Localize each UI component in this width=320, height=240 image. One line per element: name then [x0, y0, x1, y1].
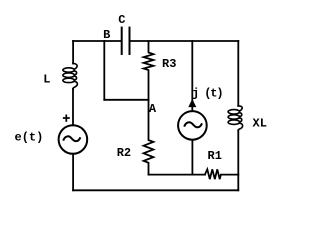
wire left lower [72, 154, 74, 191]
resistor R2 with leads (node A down) [144, 100, 154, 175]
inductor L entry hook [73, 64, 77, 70]
inductor L loop2 [63, 73, 75, 77]
svg-text:A: A [149, 102, 157, 116]
svg-text:R1: R1 [208, 149, 222, 163]
wire bottom [73, 189, 238, 191]
wire node B to node A [104, 99, 148, 101]
inductor XL right connector 2 [239, 118, 241, 122]
inductor XL right connector 1 [239, 113, 241, 117]
resistor R3 with leads [144, 41, 154, 100]
inductor L loop1 [63, 68, 75, 72]
inductor L exit hook [73, 81, 77, 89]
inductor XL entry hook [238, 106, 242, 111]
wire current source top lead [191, 41, 193, 111]
capacitor C left plate [121, 28, 123, 54]
voltage source e(t) circle [59, 125, 88, 154]
plus sign of source e(t) [64, 115, 69, 121]
wire left upper [72, 41, 74, 64]
svg-text:R3: R3 [162, 57, 176, 71]
resistor R1 [205, 169, 238, 179]
wire left middle [72, 89, 74, 125]
inductor L loop3 [63, 78, 75, 82]
current source arrow head [189, 100, 195, 107]
svg-text:B: B [103, 28, 110, 42]
svg-text:XL: XL [253, 117, 267, 131]
svg-text:L: L [43, 73, 50, 87]
wire right upper [237, 41, 239, 106]
wire current source bottom lead [191, 140, 193, 175]
capacitor C right plate [129, 28, 131, 54]
inductor XL loop3 [228, 120, 240, 124]
wire R2 bottom to R1 [149, 174, 205, 176]
inductor XL loop1 [228, 110, 240, 114]
wire right lower [237, 131, 239, 191]
voltage source e(t) sine wave [64, 136, 80, 141]
inductor L right connector 2 [74, 76, 76, 80]
current source j(t) sine wave [185, 122, 202, 127]
svg-text:j (t): j (t) [192, 87, 223, 101]
inductor L right connector 1 [74, 71, 76, 75]
inductor XL exit hook [238, 123, 242, 131]
inductor XL loop2 [228, 115, 240, 119]
wire node B drop [103, 41, 105, 100]
svg-text:C: C [118, 13, 125, 27]
svg-text:e(t): e(t) [15, 130, 44, 144]
wire top-left segment (node B top wire) [73, 40, 121, 42]
current source j(t) circle [178, 111, 207, 140]
svg-text:R2: R2 [117, 146, 131, 160]
wire top-right segment [130, 40, 238, 42]
